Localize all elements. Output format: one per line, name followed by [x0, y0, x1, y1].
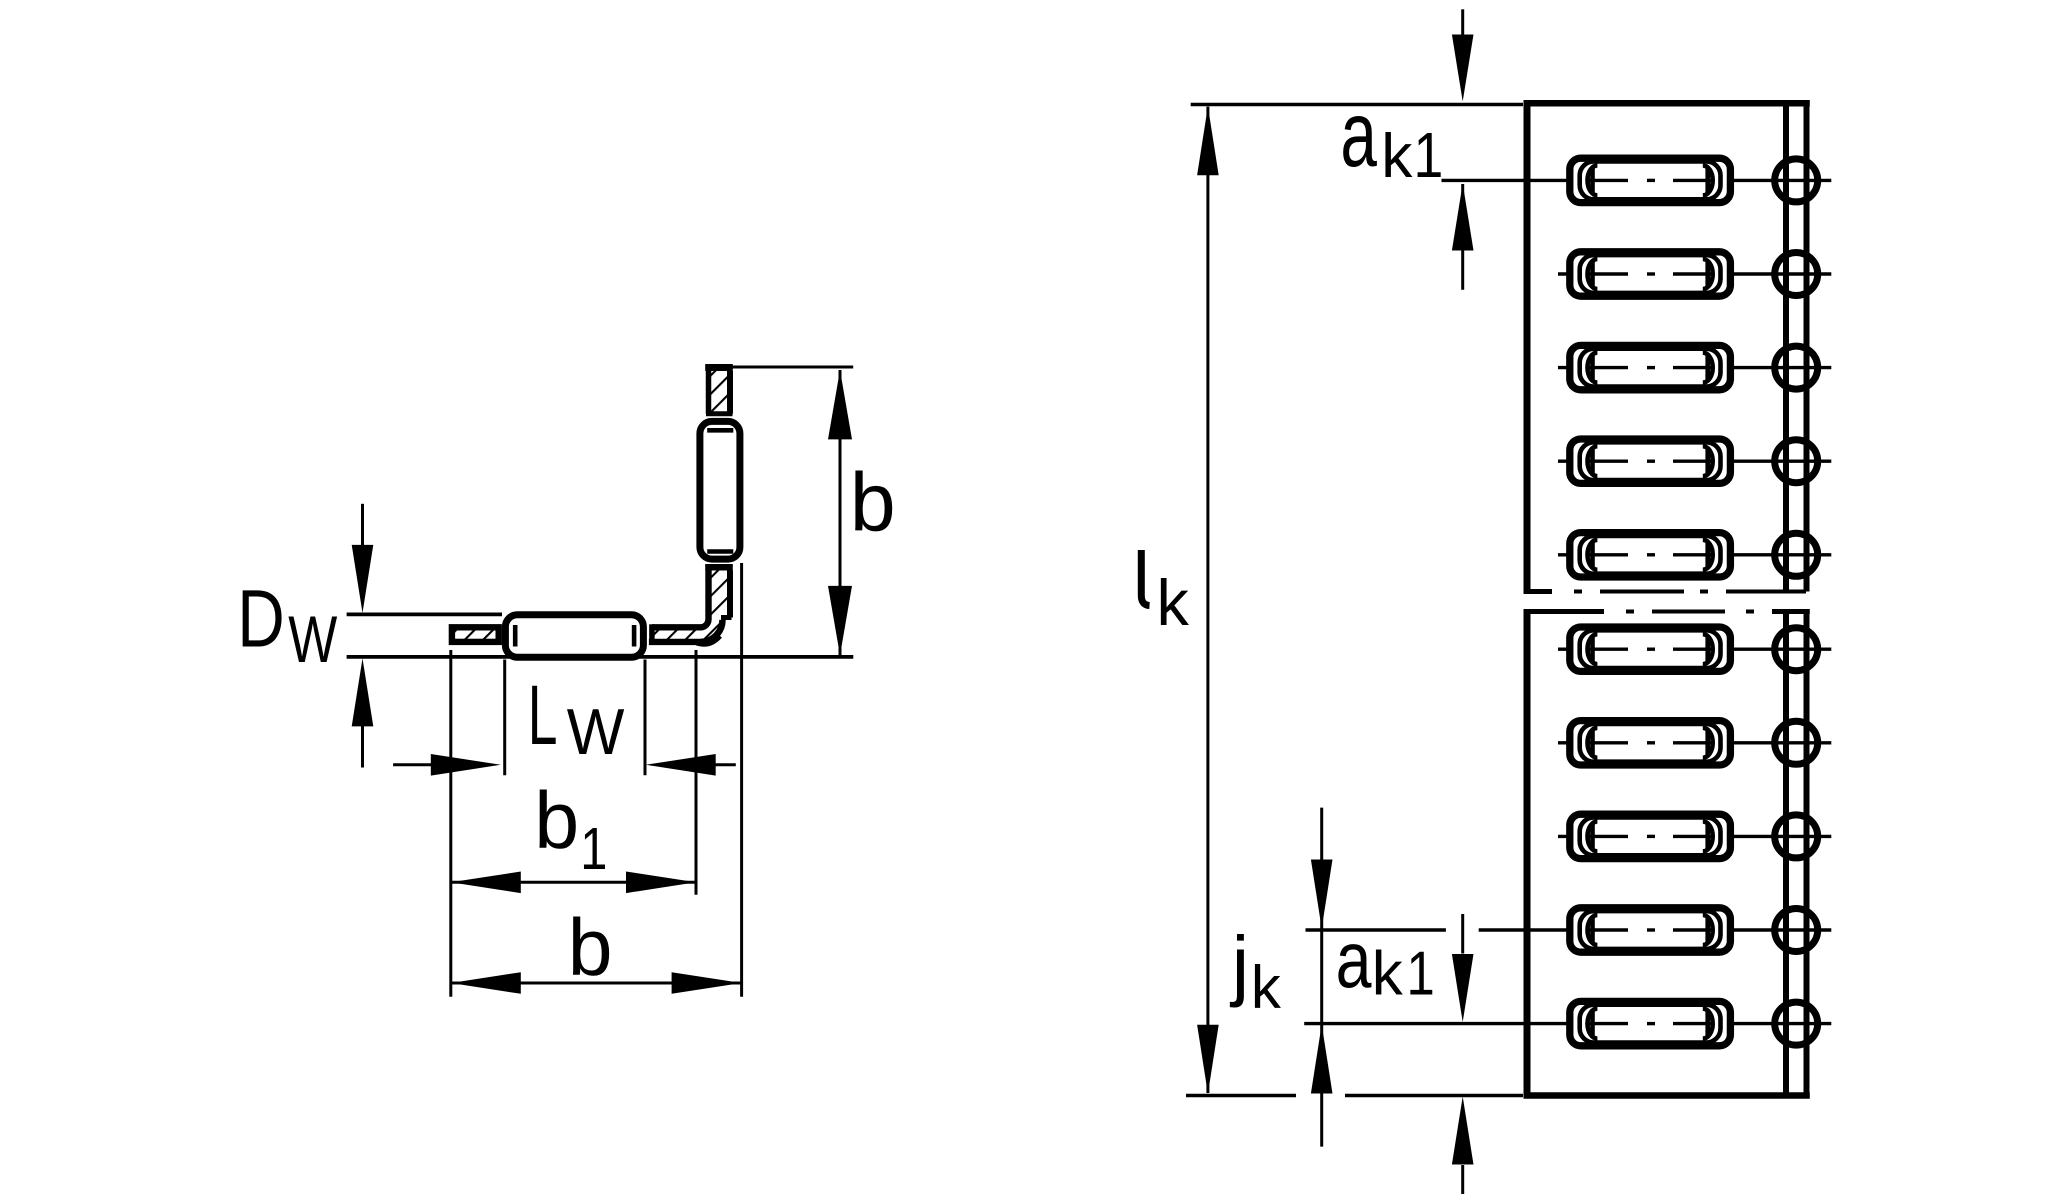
cage top end cap [705, 364, 733, 371]
roller row 2 roller right end arc [1703, 259, 1713, 289]
roller row 1 roller end face ticks [1590, 168, 1595, 192]
roller row 5 retaining circle [1775, 533, 1818, 576]
roller row 4 roller left end arc [1588, 446, 1598, 476]
roller horizontal end ticks [513, 625, 518, 647]
roller vertical (section) [700, 421, 740, 559]
roller row 3 roller end face ticks [1590, 356, 1595, 380]
cage bend outer arc stub [697, 636, 720, 644]
svg-text:1: 1 [580, 815, 607, 882]
extension line bend inner [695, 650, 698, 895]
label lk [1141, 550, 1149, 606]
roller row 7 center line [1558, 741, 1628, 744]
extension line outer right [740, 563, 743, 997]
roller row 4 retaining circle [1775, 440, 1818, 483]
roller row 6 roller end face ticks [1590, 637, 1595, 661]
cage section left piece outline [452, 627, 499, 642]
svg-text:1: 1 [1407, 940, 1435, 1009]
roller row 3 retaining circle [1775, 346, 1818, 389]
roller row 8 center line [1558, 835, 1628, 838]
roller row 7 roller outline [1580, 724, 1721, 762]
roller row 6 roller outline [1580, 630, 1721, 668]
svg-text:b: b [568, 903, 613, 993]
roller row 8 roller left end arc [1588, 821, 1598, 851]
dimension jk line [1320, 808, 1323, 1147]
cage vertical right edge lower [727, 570, 733, 617]
cage strip left edge lower section [1524, 612, 1531, 1099]
svg-text:k: k [1157, 566, 1190, 639]
dimension ak1 top witness line [1461, 9, 1464, 35]
roller row 5 pocket outline [1570, 533, 1731, 577]
dimension b bottom [451, 982, 742, 985]
cage bottom pocket cap [705, 564, 733, 571]
roller row 6 retaining circle [1775, 628, 1818, 671]
svg-text:b: b [534, 776, 579, 866]
roller row 5 roller left end arc [1588, 540, 1598, 570]
roller row 1 center line [1442, 179, 1629, 182]
svg-text:1: 1 [1414, 121, 1444, 191]
roller row 10 center line inner segments [1589, 1022, 1628, 1025]
dimension b vertical [839, 370, 842, 655]
cage vertical top piece edges [706, 371, 712, 414]
roller row 8 retaining circle [1775, 815, 1818, 858]
roller row 7 center line inner segments [1589, 741, 1628, 744]
roller row 7 retaining circle [1775, 721, 1818, 764]
roller row 2 pocket outline [1570, 252, 1731, 296]
roller row 10 roller outline [1580, 1005, 1721, 1043]
cage section bend region hatch [652, 567, 730, 642]
roller row 6 roller left end arc [1588, 634, 1598, 664]
dimension line lk [1206, 107, 1209, 1093]
dimension Dw witness [361, 504, 364, 545]
roller row 5 roller outline [1580, 536, 1721, 574]
roller row 10 pocket outline [1570, 1001, 1731, 1045]
roller row 2 retaining circle [1775, 253, 1818, 296]
roller row 7 pocket outline [1570, 721, 1731, 765]
roller row 9 roller end face ticks [1590, 918, 1595, 942]
roller row 7 roller right end arc [1703, 728, 1713, 758]
roller row 2 center line [1558, 272, 1628, 275]
svg-text:D: D [237, 573, 284, 664]
roller row 2 roller left end arc [1588, 259, 1598, 289]
roller row 1 center line inner segments [1589, 179, 1628, 182]
roller row 8 roller end face ticks [1590, 824, 1595, 848]
extension line Dw top [347, 613, 502, 617]
dimension b1 [451, 881, 696, 884]
svg-text:W: W [567, 696, 625, 768]
roller row 5 roller right end arc [1703, 540, 1713, 570]
roller row 9 center line inner segments [1589, 928, 1628, 931]
roller row 7 roller left end arc [1588, 728, 1598, 758]
roller row 9 roller outline [1580, 911, 1721, 949]
dimension ak1 bottom witness [1461, 914, 1464, 954]
cage bend step line [721, 615, 732, 620]
roller row 5 roller end face ticks [1590, 543, 1595, 567]
svg-text:j: j [1230, 920, 1249, 1008]
roller row 1 roller left end arc [1588, 165, 1598, 195]
roller row 6 center line inner segments [1589, 648, 1628, 651]
svg-text:L: L [528, 668, 558, 762]
roller row 4 roller outline [1580, 442, 1721, 480]
roller row 3 roller left end arc [1588, 353, 1598, 383]
roller row 8 center line inner segments [1589, 835, 1628, 838]
extension line bottom edge lk [1186, 1094, 1296, 1098]
roller row 9 roller right end arc [1703, 915, 1713, 945]
cage right rail outer line lower [1804, 612, 1810, 1099]
cage right rail inner line lower [1783, 612, 1789, 1096]
roller row 1 pocket outline [1570, 158, 1731, 202]
roller row 9 roller left end arc [1588, 915, 1598, 945]
roller row 10 roller left end arc [1588, 1009, 1598, 1039]
svg-text:W: W [288, 602, 337, 676]
roller row 4 center line [1558, 460, 1628, 463]
break line upper (chain) [1524, 589, 1553, 594]
roller row 3 center line inner segments [1589, 366, 1628, 369]
roller row 6 roller right end arc [1703, 634, 1713, 664]
roller row 4 center line inner segments [1589, 460, 1628, 463]
svg-text:b: b [850, 456, 896, 548]
cage strip bottom edge [1524, 1092, 1810, 1099]
roller row 3 roller outline [1580, 349, 1721, 387]
roller row 1 roller outline [1580, 162, 1721, 200]
svg-text:a: a [1340, 82, 1377, 186]
cage bend relief arc [701, 620, 723, 642]
cage bend inner edge (top + fillet + vertical left edge) [652, 570, 709, 627]
roller horizontal (section) [505, 615, 643, 658]
break line lower (chain) [1524, 609, 1605, 614]
extension line b top (cap) [732, 366, 854, 369]
roller row 4 pocket outline [1570, 439, 1731, 483]
roller row 5 center line inner segments [1589, 553, 1628, 556]
roller row 7 roller end face ticks [1590, 731, 1595, 755]
roller row 3 pocket outline [1570, 345, 1731, 389]
svg-text:a: a [1336, 916, 1372, 1005]
cage section left piece hatch [452, 627, 499, 642]
cage strip left edge upper section [1524, 100, 1531, 591]
extension line vertical left end [449, 650, 452, 997]
cage right rail inner line upper [1783, 103, 1789, 591]
extension line roller left [503, 660, 506, 776]
roller row 8 pocket outline [1570, 814, 1731, 858]
cage top pocket cap [706, 411, 733, 416]
roller vertical end ticks [707, 428, 733, 433]
roller row 9 center line [1306, 928, 1446, 931]
roller row 8 roller outline [1580, 818, 1721, 856]
roller row 3 center line [1558, 366, 1628, 369]
roller row 5 center line [1558, 553, 1628, 556]
roller row 6 pocket outline [1570, 627, 1731, 671]
roller row 10 roller right end arc [1703, 1009, 1713, 1039]
roller row 6 center line [1558, 648, 1628, 651]
roller row 8 roller right end arc [1703, 821, 1713, 851]
cage vertical top piece hatch [709, 371, 731, 414]
cage strip top edge [1524, 100, 1810, 107]
cage bend pocket wall cap [649, 624, 655, 645]
extension line top edge lk [1191, 103, 1523, 107]
svg-text:k: k [1381, 122, 1413, 191]
roller row 10 center line [1304, 1022, 1628, 1025]
roller row 10 retaining circle [1775, 1002, 1818, 1045]
roller row 3 roller right end arc [1703, 353, 1713, 383]
roller row 9 pocket outline [1570, 908, 1731, 952]
roller row 2 roller outline [1580, 255, 1721, 293]
cage bend relief crescent (white) [700, 616, 730, 642]
cage right rail outer line upper [1804, 100, 1810, 591]
roller row 4 roller end face ticks [1590, 449, 1595, 473]
roller row 1 roller right end arc [1703, 165, 1713, 195]
roller row 10 roller end face ticks [1590, 1012, 1595, 1036]
extension line roller right [644, 660, 647, 776]
extension line Dw bottom / b bottom [347, 655, 854, 659]
roller row 2 roller end face ticks [1590, 262, 1595, 286]
roller row 4 roller right end arc [1703, 446, 1713, 476]
svg-text:k: k [1251, 954, 1282, 1021]
roller row 2 center line inner segments [1589, 272, 1628, 275]
svg-text:k: k [1372, 939, 1404, 1008]
dimension Lw [393, 763, 432, 766]
roller row 9 retaining circle [1775, 909, 1818, 952]
roller row 1 retaining circle [1775, 159, 1818, 202]
cage bend bottom edge [649, 639, 701, 645]
